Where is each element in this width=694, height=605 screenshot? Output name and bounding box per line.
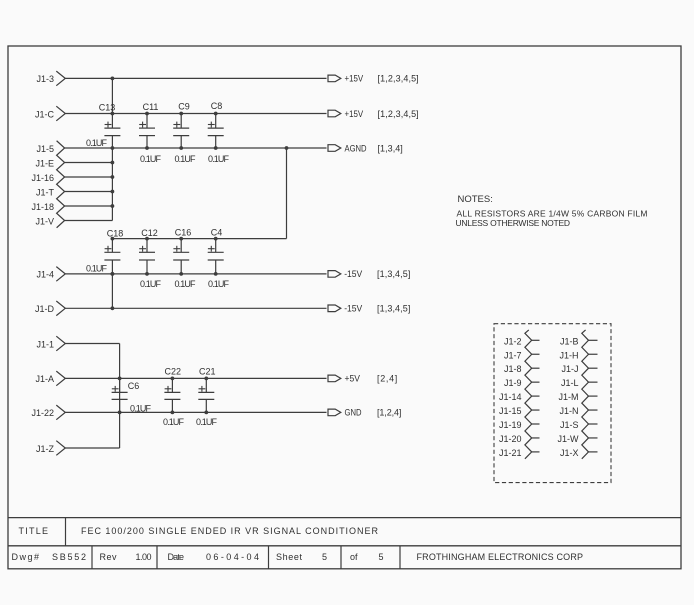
power flag GND xyxy=(328,409,341,416)
svg-text:FROTHINGHAM ELECTRONICS CORP: FROTHINGHAM ELECTRONICS CORP xyxy=(417,552,584,562)
junction AGND bus xyxy=(111,175,115,179)
wire J1-T to AGND bus xyxy=(65,191,113,193)
svg-text:0.1UF: 0.1UF xyxy=(175,154,197,164)
junction bus/J1-A xyxy=(118,377,122,381)
connector pin J1-D xyxy=(56,301,65,316)
svg-text:J1-18: J1-18 xyxy=(31,202,54,212)
bottom row divider xyxy=(340,546,342,569)
junction C9 bottom xyxy=(179,146,183,150)
svg-text:0.1UF: 0.1UF xyxy=(140,154,162,164)
spare pin stub J1-J xyxy=(589,367,598,369)
junction C4 top xyxy=(214,237,218,241)
capacitor C13 xyxy=(104,114,120,149)
spare pin stub J1-15 xyxy=(532,409,540,411)
svg-text:J1-7: J1-7 xyxy=(504,350,522,360)
power flag +15V (J1-3) xyxy=(328,75,341,82)
svg-text:0.1UF: 0.1UF xyxy=(208,279,230,289)
svg-text:J1-N: J1-N xyxy=(559,406,578,416)
svg-text:C8: C8 xyxy=(211,101,223,111)
junction C8 top xyxy=(214,112,218,116)
svg-text:C22: C22 xyxy=(165,366,182,376)
svg-text:-15V: -15V xyxy=(344,269,362,279)
svg-text:of: of xyxy=(350,552,358,562)
wire lower cap top rail xyxy=(112,238,286,240)
capacitor C9 xyxy=(173,114,189,149)
junction AGND rail xyxy=(285,146,289,150)
spare pin stub J1-2 xyxy=(532,339,540,341)
junction C21 bottom xyxy=(204,411,208,415)
wire J1-4 to -15V xyxy=(65,273,326,275)
spare pin stub J1-X xyxy=(589,451,598,453)
junction C16 top xyxy=(179,237,183,241)
svg-text:J1-L: J1-L xyxy=(561,378,579,388)
junction C18 top xyxy=(111,237,115,241)
connector pin J1-22 xyxy=(56,405,65,420)
junction C18 bottom xyxy=(111,272,115,276)
svg-text:0.1UF: 0.1UF xyxy=(130,403,152,413)
capacitor C22 xyxy=(164,378,180,412)
power flag AGND xyxy=(328,145,341,152)
svg-text:J1-D: J1-D xyxy=(35,304,55,314)
svg-text:J1-19: J1-19 xyxy=(499,420,522,430)
spare pin stub J1-L xyxy=(589,381,598,383)
svg-text:J1-15: J1-15 xyxy=(499,406,522,416)
junction C13 top xyxy=(111,112,115,116)
svg-text:1.00: 1.00 xyxy=(136,552,152,562)
svg-text:J1-3: J1-3 xyxy=(36,74,54,84)
svg-text:C16: C16 xyxy=(175,228,192,238)
junction C8 bottom xyxy=(214,146,218,150)
bottom row divider xyxy=(399,546,401,569)
junction AGND bus xyxy=(111,204,115,208)
junction AGND bus xyxy=(111,190,115,194)
title row divider xyxy=(65,518,67,546)
wire J1-16 to AGND bus xyxy=(65,176,113,178)
junction AGND bus xyxy=(111,161,115,165)
svg-text:C4: C4 xyxy=(211,228,223,238)
svg-text:J1-Z: J1-Z xyxy=(36,444,55,454)
wire J1-Z xyxy=(65,447,119,449)
spare pin stub J1-M xyxy=(589,395,598,397)
power flag +15V (J1-C) xyxy=(328,110,341,117)
junction C11 bottom xyxy=(145,146,149,150)
wire J1-1 xyxy=(65,343,119,345)
junction C12 top xyxy=(145,237,149,241)
svg-text:C6: C6 xyxy=(128,381,140,391)
junction on J1-4 wire xyxy=(111,272,115,276)
svg-text:J1-H: J1-H xyxy=(559,350,578,360)
spare pin stub J1-8 xyxy=(532,367,540,369)
junction C12 bottom xyxy=(145,272,149,276)
spare pin stub J1-9 xyxy=(532,381,540,383)
svg-text:J1-B: J1-B xyxy=(560,336,579,346)
power flag -15V (J1-4) xyxy=(328,271,341,278)
svg-text:5: 5 xyxy=(322,552,327,562)
svg-text:NOTES:: NOTES: xyxy=(458,194,493,205)
junction on J1-3 wire xyxy=(111,77,115,81)
junction bus/J1-22 xyxy=(118,411,122,415)
title block top line xyxy=(8,517,681,519)
svg-text:J1-5: J1-5 xyxy=(36,144,54,154)
svg-text:0.1UF: 0.1UF xyxy=(86,264,108,274)
wire J1-18 to AGND bus xyxy=(65,205,113,207)
svg-text:0.1UF: 0.1UF xyxy=(175,279,197,289)
connector pin J1-A xyxy=(56,371,65,386)
junction C9 top xyxy=(179,112,183,116)
svg-text:J1-4: J1-4 xyxy=(36,270,54,280)
wire J1-A to +5V xyxy=(65,377,326,379)
svg-text:5: 5 xyxy=(379,552,384,562)
wire J1-D to -15V xyxy=(65,307,326,309)
wire J1-V to AGND bus xyxy=(65,220,113,222)
junction C13 bottom xyxy=(111,146,115,150)
svg-text:SB552: SB552 xyxy=(52,552,86,562)
svg-text:+15V: +15V xyxy=(345,73,364,84)
svg-text:+15V: +15V xyxy=(345,108,364,119)
svg-text:[1,3,4,5]: [1,3,4,5] xyxy=(377,304,410,314)
svg-text:J1-20: J1-20 xyxy=(499,434,522,444)
wire AGND rail xyxy=(65,147,327,149)
svg-text:Rev: Rev xyxy=(100,552,118,562)
wire J1-E to AGND bus xyxy=(65,162,113,164)
spare pins dashed box xyxy=(494,324,611,483)
svg-text:J1-S: J1-S xyxy=(560,420,579,430)
junction on J1-D wire xyxy=(111,306,115,310)
wire J1-22 to GND xyxy=(65,411,326,413)
capacitor C18 xyxy=(104,239,120,274)
svg-text:[1,2,3,4,5]: [1,2,3,4,5] xyxy=(378,109,419,119)
svg-text:[1,3,4,5]: [1,3,4,5] xyxy=(377,269,410,279)
svg-text:[2,4]: [2,4] xyxy=(377,374,397,384)
svg-text:Sheet: Sheet xyxy=(276,552,302,562)
svg-text:C9: C9 xyxy=(178,102,190,112)
wire J1-C to +15V xyxy=(65,113,326,115)
wire J1-4 rail to J1-D rail xyxy=(111,274,113,308)
svg-text:J1-16: J1-16 xyxy=(31,173,54,183)
spare pin stub J1-S xyxy=(589,423,598,425)
svg-text:J1-M: J1-M xyxy=(559,392,579,402)
power flag +5V xyxy=(328,375,341,382)
svg-text:+5V: +5V xyxy=(345,373,361,383)
svg-text:FEC 100/200 SINGLE ENDED IR VR: FEC 100/200 SINGLE ENDED IR VR SIGNAL CO… xyxy=(81,526,379,536)
svg-text:TITLE: TITLE xyxy=(19,526,49,536)
spare pin stub J1-21 xyxy=(532,451,540,453)
wire AGND to lower cap rail xyxy=(286,148,288,239)
spare pin stub J1-19 xyxy=(532,423,540,425)
title block middle line xyxy=(8,545,681,547)
svg-text:J1-1: J1-1 xyxy=(36,339,54,349)
capacitor C16 xyxy=(173,239,189,274)
connector pin J1-C xyxy=(56,106,65,121)
spare pin stub J1-N xyxy=(589,409,598,411)
svg-text:J1-8: J1-8 xyxy=(504,364,522,374)
svg-text:0.1UF: 0.1UF xyxy=(163,417,185,427)
junction C22 top xyxy=(171,377,175,381)
svg-text:C11: C11 xyxy=(143,102,159,112)
svg-text:UNLESS OTHERWISE NOTED: UNLESS OTHERWISE NOTED xyxy=(456,218,571,228)
capacitor C12 xyxy=(139,239,155,274)
svg-text:C21: C21 xyxy=(199,366,216,376)
spare pin stub J1-W xyxy=(589,437,598,439)
junction C11 top xyxy=(145,112,149,116)
svg-text:0.1UF: 0.1UF xyxy=(208,154,230,164)
svg-text:J1-14: J1-14 xyxy=(499,392,522,402)
svg-text:J1-A: J1-A xyxy=(35,374,54,384)
capacitor C11 xyxy=(139,114,155,149)
wire +15V tie J1-3 to J1-C xyxy=(111,78,113,113)
svg-text:J1-J: J1-J xyxy=(561,364,578,374)
spare pin stub J1-7 xyxy=(532,353,540,355)
capacitor C8 xyxy=(208,114,224,149)
spare pin chevron chain xyxy=(525,330,532,459)
junction C16 bottom xyxy=(179,272,183,276)
connector pin chain J1-5/J1-E/J1-16/J1-T/J1-18/J1-V xyxy=(57,141,65,228)
connector pin J1-1 xyxy=(56,336,65,351)
capacitor C6 xyxy=(112,378,128,412)
AGND bus vertical xyxy=(111,148,113,221)
wire J1-3 to +15V xyxy=(65,77,326,79)
junction C4 bottom xyxy=(214,272,218,276)
connector pin J1-3 xyxy=(56,71,65,86)
svg-text:0.1UF: 0.1UF xyxy=(140,279,162,289)
svg-text:GND: GND xyxy=(345,407,362,418)
svg-text:J1-T: J1-T xyxy=(36,187,55,197)
svg-text:J1-22: J1-22 xyxy=(31,408,54,418)
svg-text:C13: C13 xyxy=(99,103,116,113)
svg-text:J1-V: J1-V xyxy=(35,216,54,226)
svg-text:J1-W: J1-W xyxy=(558,434,580,444)
svg-text:J1-C: J1-C xyxy=(35,109,55,119)
spare pin stub J1-14 xyxy=(532,395,540,397)
svg-text:J1-9: J1-9 xyxy=(504,378,522,388)
svg-text:J1-X: J1-X xyxy=(560,448,579,458)
svg-text:[1,3,4]: [1,3,4] xyxy=(378,143,403,153)
capacitor C21 xyxy=(198,378,214,412)
svg-text:0.1UF: 0.1UF xyxy=(196,417,218,427)
svg-text:J1-E: J1-E xyxy=(35,158,54,168)
svg-text:[1,2,3,4,5]: [1,2,3,4,5] xyxy=(378,74,419,84)
svg-text:J1-21: J1-21 xyxy=(499,448,522,458)
spare pin stub J1-20 xyxy=(532,437,540,439)
svg-text:[1,2,4]: [1,2,4] xyxy=(377,408,401,418)
bottom row divider xyxy=(91,546,93,569)
connector pin J1-4 xyxy=(56,267,65,282)
svg-text:C12: C12 xyxy=(141,228,158,238)
junction C21 top xyxy=(204,377,208,381)
svg-text:Date: Date xyxy=(168,552,185,562)
spare pin stub J1-H xyxy=(589,353,598,355)
capacitor C4 xyxy=(208,239,224,274)
spare pin chevron chain xyxy=(582,330,589,459)
spare pin stub J1-B xyxy=(589,339,598,341)
bottom row divider xyxy=(156,546,158,569)
power flag -15V (J1-D) xyxy=(328,305,341,312)
bottom row divider xyxy=(268,546,270,569)
svg-text:J1-2: J1-2 xyxy=(504,336,522,346)
connector pin J1-Z xyxy=(56,441,65,456)
svg-text:Dwg#: Dwg# xyxy=(12,552,40,562)
vertical bus J1-1 to J1-Z xyxy=(119,344,121,449)
svg-text:0.1UF: 0.1UF xyxy=(86,138,108,148)
svg-text:AGND: AGND xyxy=(345,143,367,154)
svg-text:C18: C18 xyxy=(107,229,124,239)
junction C22 bottom xyxy=(171,411,175,415)
svg-text:-15V: -15V xyxy=(344,303,362,313)
